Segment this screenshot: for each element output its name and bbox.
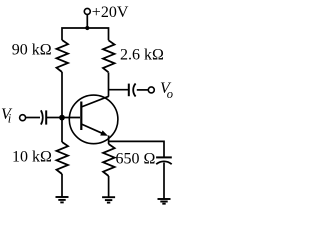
wire emitter down bbox=[108, 136, 110, 145]
svg-text:10 kΩ: 10 kΩ bbox=[12, 149, 52, 166]
wire top rail bbox=[62, 28, 109, 40]
ground left bbox=[56, 197, 69, 202]
wire bypass cap to ground bbox=[163, 163, 165, 199]
capacitor C3 bypass flat plate bbox=[156, 156, 172, 158]
wire 10k to ground bbox=[61, 174, 63, 197]
node supply junction dot bbox=[85, 26, 89, 30]
supply terminal +20V bbox=[84, 8, 90, 14]
input terminal Vi circle bbox=[20, 115, 26, 121]
wire emitter rail to bypass cap bbox=[109, 141, 164, 157]
svg-text:Vo: Vo bbox=[160, 80, 173, 101]
wire output branch bbox=[109, 89, 129, 91]
wire input cap to base node bbox=[46, 117, 62, 119]
resistor R3 2.6 kOhm bbox=[103, 40, 115, 72]
transistor Q1 circle bbox=[69, 95, 118, 144]
wire 650 to ground bbox=[108, 176, 110, 197]
transistor Q1 emitter lead bbox=[81, 124, 104, 134]
ground middle bbox=[102, 197, 115, 202]
capacitor C1 input flat plate bbox=[45, 110, 47, 124]
resistor R1 90 kOhm bbox=[57, 40, 69, 72]
capacitor C2 output flat plate bbox=[128, 84, 130, 97]
wire supply stem bbox=[86, 14, 88, 28]
wire base bbox=[62, 117, 80, 119]
svg-text:650 Ω: 650 Ω bbox=[116, 151, 156, 168]
output terminal Vo circle bbox=[148, 87, 154, 93]
wire cap to output terminal bbox=[137, 89, 149, 91]
ground right bbox=[158, 199, 171, 204]
capacitor C1 input curved plate bbox=[41, 110, 43, 124]
capacitor C3 bypass curved plate bbox=[156, 161, 172, 164]
transistor Q1 emitter arrowhead bbox=[100, 130, 108, 135]
capacitor C2 output curved plate bbox=[133, 84, 135, 97]
node base junction dot bbox=[59, 115, 65, 121]
wire Vi to input cap bbox=[26, 117, 40, 119]
svg-text:90 kΩ: 90 kΩ bbox=[12, 42, 52, 59]
resistor R2 10 kOhm bbox=[57, 142, 69, 174]
wire left rail to base node and down bbox=[61, 72, 63, 142]
transistor Q1 collector lead bbox=[81, 96, 108, 107]
svg-text:2.6 kΩ: 2.6 kΩ bbox=[120, 46, 164, 63]
wire collector rail bbox=[108, 73, 110, 97]
resistor R4 650 Ohm bbox=[103, 144, 115, 176]
svg-text:Vi: Vi bbox=[1, 106, 13, 126]
transistor Q1 base bar bbox=[80, 102, 82, 131]
svg-text:+20V: +20V bbox=[92, 4, 129, 21]
